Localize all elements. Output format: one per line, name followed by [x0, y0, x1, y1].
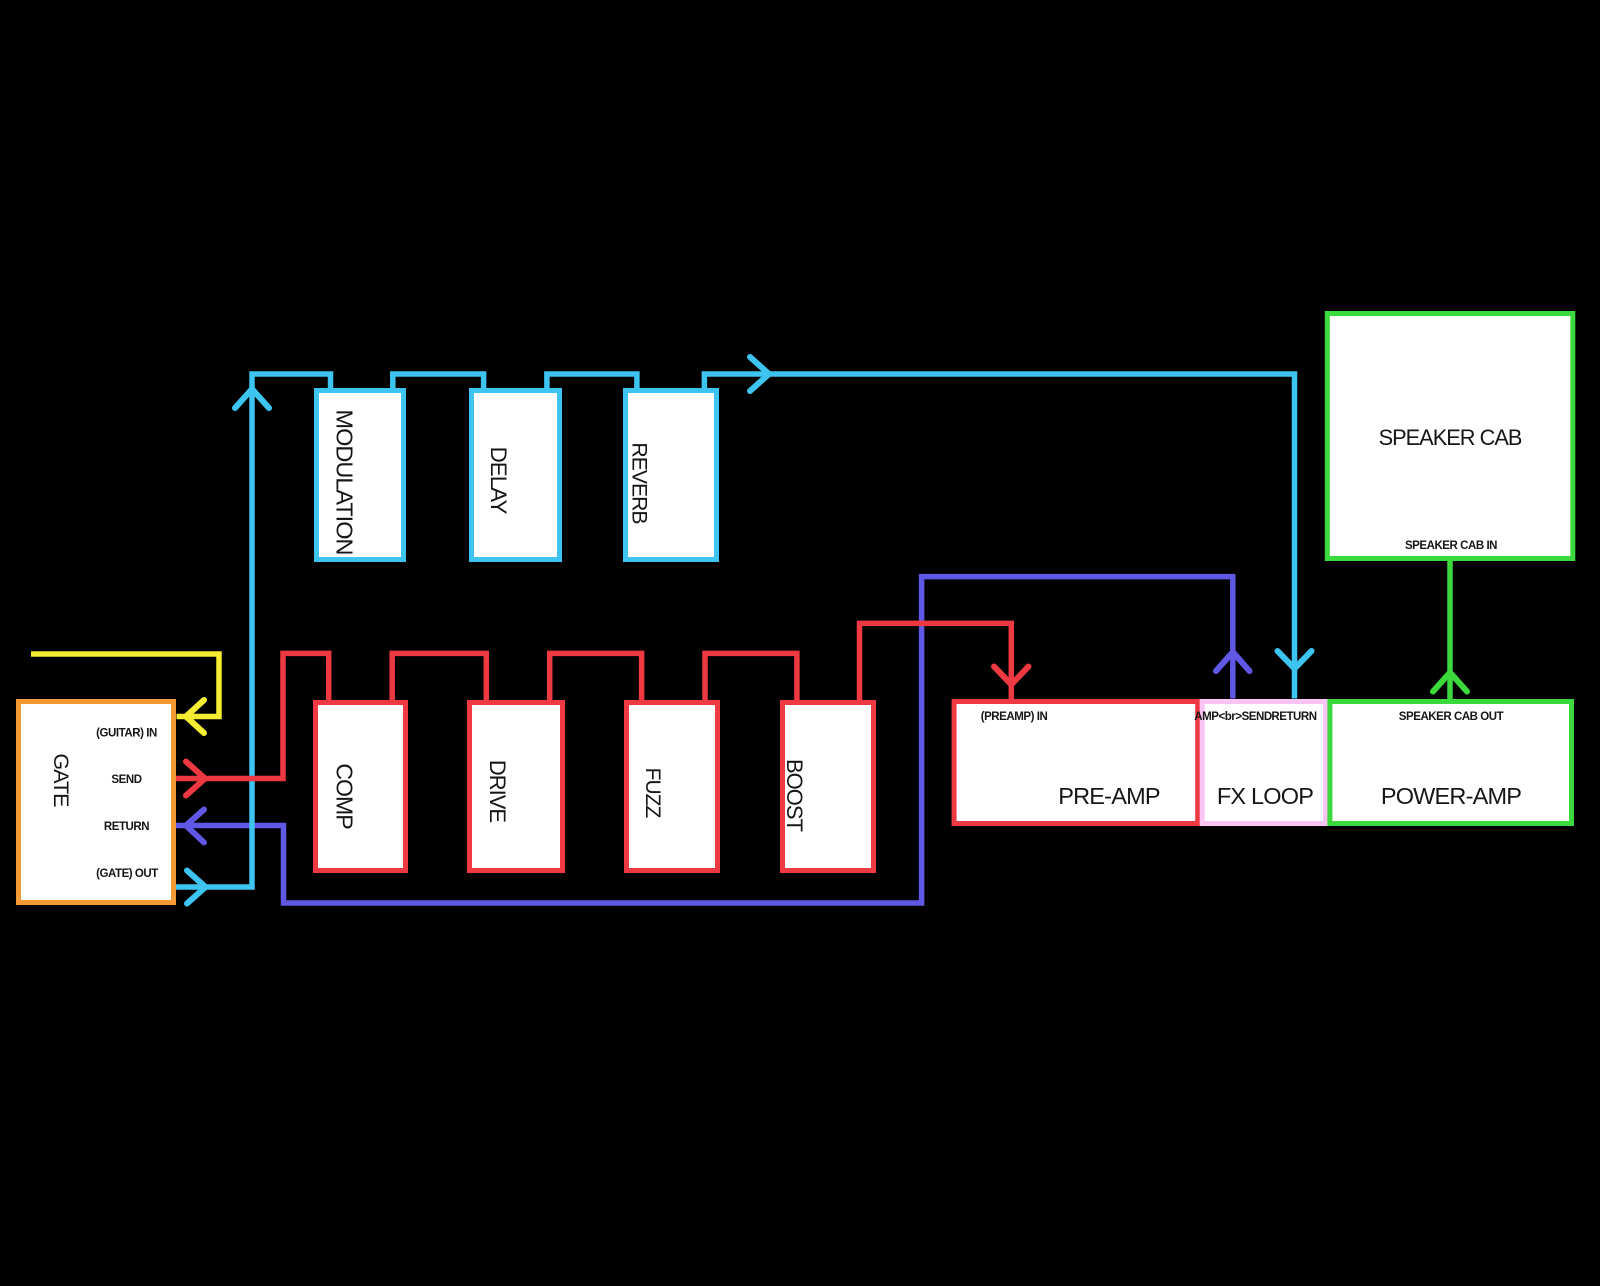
- svg-text:(GATE) OUT: (GATE) OUT: [96, 868, 158, 880]
- svg-text:PRE-AMP: PRE-AMP: [1058, 783, 1160, 809]
- svg-text:COMP: COMP: [332, 763, 358, 829]
- svg-text:GATE: GATE: [49, 753, 74, 807]
- svg-text:SPEAKER CAB OUT: SPEAKER CAB OUT: [1399, 711, 1504, 723]
- svg-text:SPEAKER CAB: SPEAKER CAB: [1379, 425, 1522, 450]
- svg-text:SEND: SEND: [111, 774, 141, 786]
- svg-text:RETURN: RETURN: [1271, 711, 1316, 723]
- svg-text:DELAY: DELAY: [486, 447, 511, 515]
- svg-text:BOOST: BOOST: [782, 759, 807, 832]
- svg-text:POWER-AMP: POWER-AMP: [1381, 783, 1521, 809]
- svg-text:FX LOOP: FX LOOP: [1217, 783, 1313, 809]
- svg-text:AMP<br>SEND: AMP<br>SEND: [1194, 711, 1272, 723]
- svg-text:REVERB: REVERB: [627, 442, 650, 524]
- svg-text:FUZZ: FUZZ: [641, 768, 664, 819]
- svg-text:DRIVE: DRIVE: [485, 760, 510, 823]
- svg-text:(PREAMP) IN: (PREAMP) IN: [981, 711, 1048, 723]
- svg-text:(GUITAR) IN: (GUITAR) IN: [96, 728, 157, 740]
- svg-text:SPEAKER CAB IN: SPEAKER CAB IN: [1405, 540, 1497, 552]
- svg-text:MODULATION: MODULATION: [332, 410, 358, 555]
- svg-text:RETURN: RETURN: [104, 821, 149, 833]
